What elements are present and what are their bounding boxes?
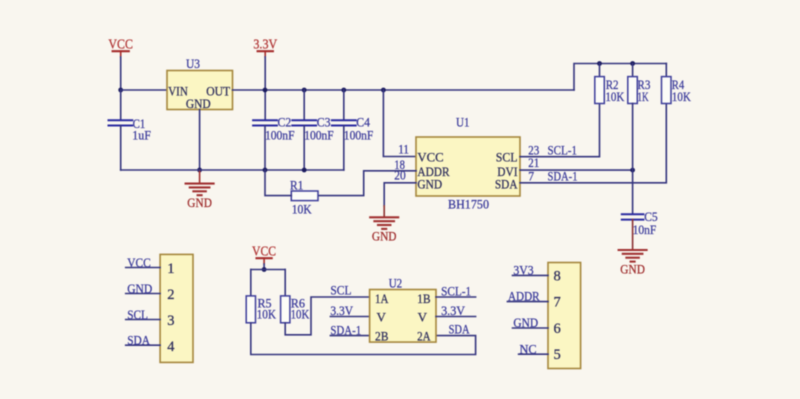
- wire U2 V right stub: [436, 316, 476, 318]
- capacitor C5 10nF: [622, 209, 658, 237]
- svg-text:VCC: VCC: [127, 255, 151, 270]
- power port VCC (top): [108, 37, 132, 57]
- wire J2 pin 5: [519, 353, 548, 355]
- net label SCL-1 (U2 right): [441, 284, 471, 299]
- svg-text:2: 2: [167, 287, 174, 303]
- svg-text:GND: GND: [372, 229, 397, 244]
- wire J2 pin 8: [513, 274, 549, 276]
- pin number 21: [528, 156, 539, 170]
- svg-text:GND: GND: [417, 177, 442, 192]
- net label GND (J1.2): [127, 281, 152, 296]
- net label 3.3V (U2 right): [441, 303, 466, 318]
- wire VCC to node: [120, 57, 122, 90]
- node U3 GND on bus: [197, 168, 202, 173]
- svg-text:11: 11: [398, 142, 409, 156]
- svg-text:NC: NC: [520, 341, 537, 356]
- svg-text:6: 6: [554, 321, 561, 337]
- node DVI/R3 junction: [630, 168, 635, 173]
- svg-text:1A: 1A: [375, 291, 389, 306]
- svg-text:U2: U2: [389, 275, 403, 290]
- IC U2: [370, 275, 436, 343]
- ground symbol GND (under U1): [370, 217, 398, 243]
- node C4 top: [341, 88, 346, 93]
- ground symbol GND (under U3): [186, 170, 214, 210]
- resistor R5 10K: [246, 296, 276, 323]
- wire C2 bottom to bus: [264, 126, 266, 171]
- net label GND (J2.6): [513, 315, 538, 330]
- wire node to U3 VIN: [121, 89, 167, 91]
- wire C4 top stub: [343, 90, 345, 120]
- node C2/R1 bottom: [263, 168, 268, 173]
- svg-text:SCL-1: SCL-1: [441, 284, 471, 299]
- svg-text:SDA: SDA: [449, 322, 470, 337]
- svg-text:SDA: SDA: [495, 177, 518, 192]
- wire U3 GND pin down: [199, 110, 201, 171]
- wire C3 top stub: [303, 90, 305, 120]
- wire R5 bottom to U2 2A (SDA): [251, 323, 476, 355]
- svg-text:GND: GND: [127, 281, 152, 296]
- connector J1: [160, 254, 193, 362]
- net label SDA-1 (U2 left): [330, 323, 361, 338]
- svg-text:3.3V: 3.3V: [253, 37, 277, 52]
- wire R1 left to gnd bus: [265, 170, 291, 196]
- svg-text:7: 7: [554, 295, 561, 311]
- svg-text:2A: 2A: [417, 329, 431, 344]
- net label SDA (J1.4): [127, 333, 150, 348]
- svg-text:3: 3: [167, 313, 174, 329]
- svg-text:8: 8: [554, 268, 561, 284]
- svg-text:VCC: VCC: [417, 150, 443, 165]
- wire rail to pull-up bus: [574, 64, 666, 91]
- svg-text:10K: 10K: [291, 306, 310, 321]
- wire U1 SDA pin 7 to R4: [520, 104, 666, 183]
- wire C5 to ground: [632, 220, 634, 250]
- wire VCC node horizontal: [251, 269, 285, 271]
- svg-text:VCC: VCC: [252, 243, 276, 258]
- svg-text:GND: GND: [620, 261, 645, 276]
- node VCC/C1/U3: [118, 88, 123, 93]
- svg-text:10K: 10K: [257, 306, 277, 321]
- net label SDA-1 (U1): [548, 169, 578, 184]
- svg-text:GND: GND: [186, 96, 211, 111]
- svg-text:V: V: [377, 310, 387, 325]
- resistor R6 10K: [281, 296, 310, 323]
- svg-text:3.3V: 3.3V: [330, 303, 353, 318]
- svg-text:SCL-1: SCL-1: [548, 143, 578, 158]
- connector J2: [548, 263, 581, 369]
- svg-text:100nF: 100nF: [344, 128, 374, 143]
- net label SDA (U2 right): [449, 322, 470, 337]
- svg-text:7: 7: [528, 170, 534, 184]
- net label 3V3 (J2.8): [513, 263, 533, 278]
- svg-text:U3: U3: [186, 56, 200, 71]
- net label SCL (J1.3): [127, 307, 148, 322]
- svg-text:2B: 2B: [375, 329, 389, 344]
- svg-text:V: V: [418, 310, 428, 325]
- net label SCL-1 (U1): [548, 143, 578, 158]
- resistor R4 10K: [662, 77, 692, 104]
- pin number 20: [394, 169, 405, 183]
- node C3 bottom: [302, 168, 307, 173]
- svg-text:3V3: 3V3: [513, 263, 533, 278]
- svg-text:R1: R1: [290, 178, 303, 193]
- svg-text:SDA-1: SDA-1: [330, 323, 361, 338]
- wire U2 2B left stub: [330, 335, 369, 337]
- wire J2 pin 7: [507, 301, 548, 303]
- wire node down to C1: [120, 90, 122, 120]
- svg-text:10K: 10K: [672, 89, 692, 104]
- pin number 11: [398, 142, 409, 156]
- wire U3 OUT to 3.3V rail: [233, 89, 575, 91]
- wire R5 top stub: [250, 270, 252, 297]
- IC U1 BH1750: [416, 115, 520, 212]
- capacitor C3 100nF: [292, 114, 333, 142]
- node C2 top: [263, 88, 268, 93]
- svg-text:BH1750: BH1750: [448, 196, 489, 211]
- svg-text:1uF: 1uF: [132, 127, 151, 142]
- ground symbol GND (under C5): [619, 250, 647, 276]
- svg-text:5: 5: [554, 347, 561, 363]
- svg-text:GND: GND: [513, 315, 538, 330]
- wire R2 top stub: [599, 64, 601, 78]
- svg-text:100nF: 100nF: [265, 128, 295, 143]
- svg-text:3.3V: 3.3V: [441, 303, 466, 318]
- capacitor C2 100nF: [253, 114, 294, 142]
- wire J1 pin 3: [126, 319, 160, 321]
- capacitor C4 100nF: [332, 114, 373, 142]
- resistor R3 1K: [628, 77, 651, 104]
- svg-text:SCL: SCL: [127, 307, 148, 322]
- wire J1 pin 1: [126, 267, 160, 269]
- wire J2 pin 6: [513, 327, 549, 329]
- pin number 23: [528, 144, 539, 158]
- svg-text:1: 1: [167, 261, 174, 277]
- svg-text:SDA: SDA: [127, 333, 150, 348]
- net label ADDR (J2.7): [508, 289, 540, 304]
- wire U1 DVI pin 21 to R3: [520, 169, 633, 171]
- pin number 18: [394, 158, 405, 172]
- svg-text:1K: 1K: [637, 89, 649, 104]
- wire C3 bottom to bus: [303, 126, 305, 171]
- svg-text:SCL: SCL: [496, 150, 518, 165]
- node R3 top: [630, 61, 635, 66]
- pin number 7: [528, 170, 534, 184]
- wire R4 top stub: [665, 64, 667, 78]
- wire C1 bottom to gnd bus: [120, 126, 122, 171]
- wire R3 bottom to C5: [632, 104, 634, 215]
- wire R3 top stub: [632, 64, 634, 78]
- wire U1 GND pin down: [384, 183, 416, 217]
- resistor R1 10K: [290, 178, 318, 217]
- resistor R2 10K: [595, 77, 625, 104]
- wire R6 top stub: [284, 270, 286, 297]
- wire U2 V left stub: [330, 316, 369, 318]
- wire J1 pin 2: [126, 293, 160, 295]
- node VCC/R5/R6: [262, 267, 267, 272]
- wire U2 1B right stub: [436, 296, 476, 298]
- svg-text:4: 4: [167, 339, 175, 355]
- net label VCC (J1.1): [127, 255, 151, 270]
- wire C4 bottom to bus: [343, 126, 345, 171]
- capacitor C1 1uF: [109, 116, 151, 142]
- svg-text:ADDR: ADDR: [508, 289, 540, 304]
- wire rail to U1 VCC pin 11: [383, 90, 416, 157]
- net label SCL (U2 left): [330, 282, 351, 297]
- power port 3.3V: [253, 37, 277, 57]
- svg-text:1B: 1B: [417, 291, 431, 306]
- svg-text:GND: GND: [187, 195, 212, 210]
- node R2 top: [597, 61, 602, 66]
- gnd bus wire: [121, 169, 344, 171]
- node U1 VCC branch: [381, 88, 386, 93]
- svg-text:10nF: 10nF: [633, 222, 657, 237]
- wire J1 pin 4: [126, 344, 160, 346]
- svg-text:100nF: 100nF: [304, 128, 334, 143]
- svg-text:SDA-1: SDA-1: [548, 169, 578, 184]
- wire U1 ADDR to R1: [318, 171, 416, 196]
- wire 3.3V down to C2: [264, 57, 266, 120]
- svg-text:10K: 10K: [292, 201, 313, 216]
- wire U1 SCL pin 23 to R2: [520, 104, 600, 157]
- svg-text:21: 21: [528, 156, 539, 170]
- svg-text:U1: U1: [456, 115, 470, 130]
- wire VCC stub to node: [263, 264, 265, 270]
- wire R6 bottom to U2 1A (SCL): [285, 297, 369, 335]
- regulator U3: [167, 56, 233, 111]
- svg-text:10K: 10K: [605, 89, 625, 104]
- power port VCC (bottom): [252, 243, 276, 264]
- svg-text:VCC: VCC: [108, 37, 132, 52]
- net label 3.3V (U2 left): [330, 303, 353, 318]
- node C3 top: [302, 88, 307, 93]
- net label NC (J2.5): [520, 341, 537, 356]
- svg-text:SCL: SCL: [330, 282, 351, 297]
